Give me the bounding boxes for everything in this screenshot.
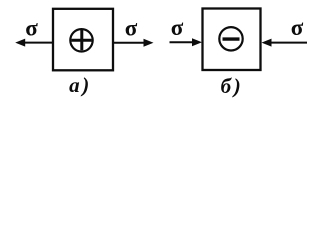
- wire left arrow b: [170, 41, 195, 43]
- plus sign: [72, 30, 92, 50]
- wire right arrow a: [113, 42, 146, 44]
- wire left arrow a: [23, 42, 53, 44]
- svg-text:σ: σ: [291, 15, 304, 40]
- wire right arrow b: [269, 42, 307, 44]
- svg-text:σ: σ: [125, 15, 138, 40]
- circle minus symbol: [219, 27, 242, 50]
- svg-text:σ: σ: [171, 15, 184, 40]
- svg-text:σ: σ: [25, 16, 38, 41]
- box element a: [53, 9, 113, 71]
- minus sign: [223, 37, 240, 40]
- svg-text:а): а): [69, 73, 92, 97]
- circle plus symbol: [70, 29, 92, 51]
- svg-text:б): б): [221, 74, 244, 98]
- box element b: [203, 9, 261, 71]
